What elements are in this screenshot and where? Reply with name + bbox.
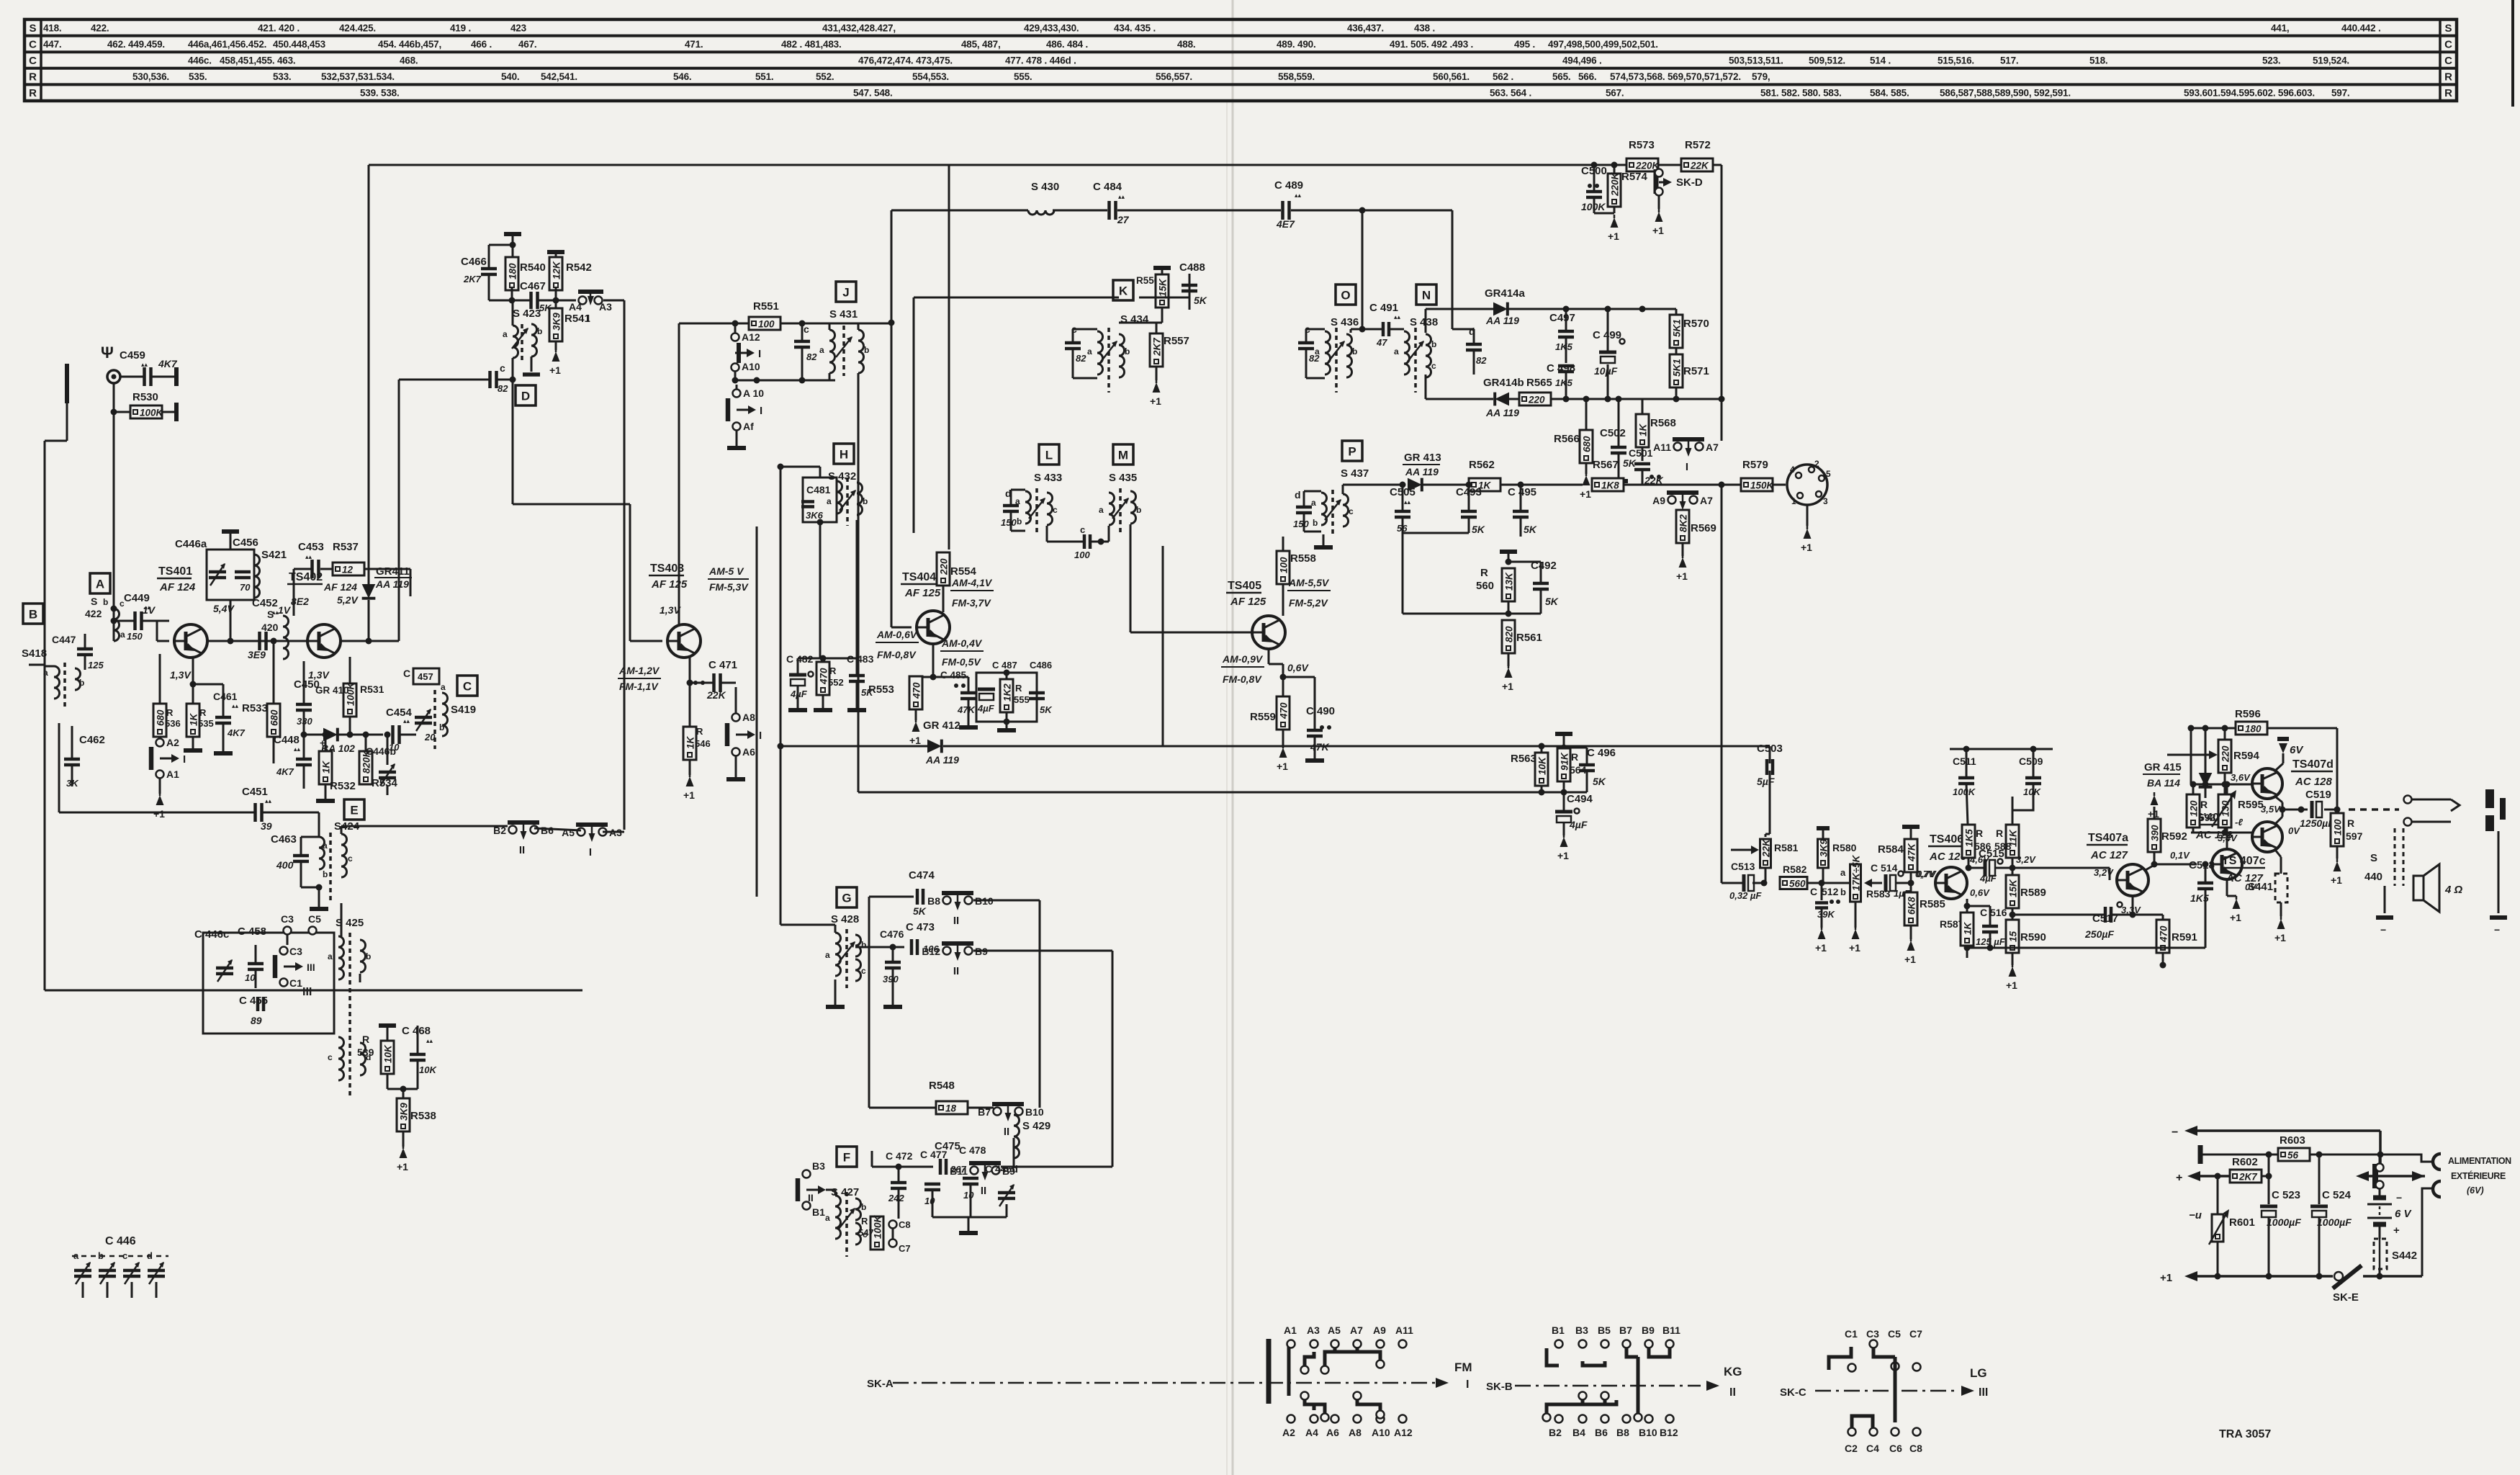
svg-text:FM-0,8V: FM-0,8V [877,649,917,660]
svg-text:4K7: 4K7 [276,766,294,777]
svg-text:5K: 5K [1194,295,1207,306]
svg-text:531.534.: 531.534. [358,71,395,82]
wire GR412 line [780,745,927,748]
svg-text:a: a [827,496,832,506]
resistor R568 [1636,414,1649,447]
svg-text:470: 470 [2159,925,2169,943]
resistor R538 [397,1098,410,1131]
svg-text:AA 119: AA 119 [925,754,959,766]
svg-text:5K: 5K [1040,704,1053,715]
svg-text:TS 407c: TS 407c [2222,855,2266,867]
svg-text:a: a [1311,498,1316,508]
svg-text:431,432,428.427,: 431,432,428.427, [822,22,896,33]
svg-text:A5: A5 [1328,1324,1341,1336]
svg-text:1V: 1V [143,604,156,616]
wire minus drop [2379,1131,2382,1163]
svg-text:2: 2 [1814,459,1819,469]
svg-text:457: 457 [418,671,433,682]
svg-text:B: B [29,608,37,622]
svg-text:S: S [267,609,274,620]
svg-text:L: L [1045,449,1053,462]
svg-text:441,: 441, [2271,22,2289,33]
resistor R546 [683,727,696,760]
svg-text:R595: R595 [2238,799,2264,811]
svg-text:c: c [861,966,866,976]
svg-text:A1: A1 [1284,1324,1297,1336]
svg-text:c: c [1080,524,1085,535]
svg-text:5K: 5K [1472,524,1485,535]
svg-text:R532: R532 [330,780,356,792]
box O [1336,284,1356,305]
resistor R569 [1676,510,1689,543]
svg-text:C 446: C 446 [105,1235,136,1247]
wire TS407b collector [2226,784,2228,849]
wire TS406 collector [1964,868,1968,871]
resistor R558 [1277,551,1290,584]
svg-text:A2: A2 [166,737,179,748]
svg-text:4E7: 4E7 [1276,218,1295,230]
wire base row TS407d [2191,784,2252,786]
svg-text:▴▴: ▴▴ [1404,498,1411,506]
svg-text:b: b [1125,346,1130,357]
transformer S435 [1109,493,1115,525]
svg-text:R: R [2444,71,2452,84]
svg-text:1K2: 1K2 [1002,683,1013,701]
svg-text:R530: R530 [132,391,158,403]
svg-text:A11: A11 [1395,1324,1413,1336]
resistor R561 [1502,620,1515,653]
svg-text:▴▴: ▴▴ [305,553,312,560]
svg-text:C 523: C 523 [2272,1189,2300,1201]
svg-text:390: 390 [883,974,899,985]
svg-text:3,5V: 3,5V [2261,804,2281,815]
wire alim lower lead [2422,1188,2433,1276]
svg-text:B7: B7 [1619,1324,1632,1336]
svg-text:R572: R572 [1685,139,1711,151]
supply bar S421 [222,529,239,534]
svg-text:546.: 546. [673,71,691,82]
svg-text:C461: C461 [213,691,238,702]
wire L row link [914,532,1011,534]
svg-text:B5: B5 [1598,1324,1611,1336]
svg-text:422: 422 [85,608,102,619]
plus rail arrow [2191,1175,2231,1178]
wire minus rail [2195,1129,2380,1132]
svg-text:R: R [2444,87,2452,99]
svg-text:10K: 10K [1537,756,1548,775]
svg-text:C: C [29,55,37,67]
svg-text:3K9: 3K9 [552,313,562,331]
DIN connector [1787,465,1827,505]
svg-text:3,6V: 3,6V [2231,772,2251,783]
svg-text:560,561.: 560,561. [1433,71,1470,82]
svg-text:S: S [2370,852,2377,864]
svg-text:C511: C511 [1953,756,1976,767]
svg-text:A4: A4 [1305,1427,1318,1438]
svg-text:A8: A8 [1349,1427,1362,1438]
svg-text:S: S [2444,22,2452,35]
svg-text:b: b [1313,518,1318,528]
svg-text:LG: LG [1970,1366,1987,1380]
svg-text:467.: 467. [518,39,536,50]
svg-text:588: 588 [1994,840,2012,852]
svg-text:424.425.: 424.425. [339,22,376,33]
contact C3 C5 [284,927,292,935]
svg-text:R562: R562 [1469,459,1495,471]
svg-text:K: K [1119,284,1128,298]
svg-text:565.: 565. [1552,71,1570,82]
svg-text:R: R [1571,751,1578,763]
svg-text:III: III [302,986,312,998]
svg-text:A3: A3 [1307,1324,1320,1336]
alim switch [2372,1164,2378,1188]
arrow into R581 [1731,849,1751,851]
svg-text:R533: R533 [242,702,268,714]
svg-text:509,512.: 509,512. [1809,55,1845,66]
SK-A dashdot line [893,1382,1436,1384]
svg-text:680: 680 [269,709,280,726]
svg-text:R531: R531 [360,683,384,695]
svg-text:A9: A9 [1652,495,1665,506]
svg-text:1K: 1K [321,760,332,774]
transformer S436 [1325,331,1331,375]
resistor R588 [2006,825,2019,858]
wire R596 left drop [2190,728,2192,784]
svg-text:+1: +1 [397,1161,408,1173]
svg-text:C497: C497 [1549,312,1575,324]
wire D riser [398,380,400,641]
svg-text:C 477: C 477 [920,1149,948,1160]
svg-text:10: 10 [924,1196,935,1206]
svg-text:220K: 220K [1610,171,1621,197]
ground S428 [834,979,837,1000]
svg-text:1V: 1V [278,604,292,616]
terminal R584 [1902,825,1920,829]
svg-text:TS405: TS405 [1228,580,1261,592]
svg-text:−: − [2396,1192,2402,1203]
svg-text:220: 220 [2220,745,2231,763]
svg-text:ALIMENTATION: ALIMENTATION [2448,1156,2511,1166]
transformer S433 [1025,491,1031,524]
wire S437 top [1342,485,1344,494]
svg-text:400: 400 [276,859,294,871]
wire R560 mid [1508,601,1510,614]
svg-text:27: 27 [1117,214,1130,225]
svg-text:560: 560 [1789,879,1806,889]
svg-text:1250µF: 1250µF [2300,817,2334,829]
svg-text:539: 539 [357,1046,374,1058]
svg-text:C 473: C 473 [906,921,935,933]
svg-text:R602: R602 [2232,1156,2258,1168]
svg-text:C: C [1810,886,1817,897]
svg-text:GR414b: GR414b [1483,377,1524,389]
svg-text:C 478: C 478 [959,1144,986,1156]
feedback arrow R594 [2167,754,2209,756]
svg-text:10K: 10K [419,1064,437,1075]
wire TS403 collector [678,323,680,625]
svg-text:2K7: 2K7 [2238,1172,2258,1183]
resistor R564 [1557,748,1570,781]
resistor R554 [937,552,950,586]
svg-text:B11: B11 [950,1165,968,1177]
transformer S427 [835,1196,841,1239]
resistor R540 [505,257,518,290]
svg-text:514 .: 514 . [1870,55,1891,66]
svg-text:O: O [1341,289,1350,302]
svg-text:536: 536 [165,718,181,729]
svg-text:+: + [2393,1224,2400,1237]
svg-text:390: 390 [2150,825,2161,841]
svg-text:AF 125: AF 125 [651,578,688,591]
svg-text:III: III [307,961,315,973]
wire M out [1130,524,1132,551]
svg-text:d: d [1295,489,1301,501]
SK-C top traces [1829,1347,1851,1370]
svg-text:434. 435 .: 434. 435 . [1114,22,1156,33]
svg-text:22K: 22K [1761,838,1772,858]
wire base bus TS407a [2012,867,2110,869]
svg-text:SK-B: SK-B [1486,1381,1513,1393]
svg-text:5µF: 5µF [1757,776,1775,787]
svg-text:546: 546 [695,738,711,749]
svg-text:AA 119: AA 119 [1485,407,1519,418]
svg-text:R582: R582 [1783,864,1807,875]
svg-text:47K: 47K [1310,741,1330,753]
capacitor C473 row [855,946,904,949]
svg-text:R559: R559 [1250,711,1276,723]
svg-text:A1: A1 [166,768,179,780]
svg-text:C 495: C 495 [1508,486,1536,498]
svg-text:R568: R568 [1650,417,1676,429]
svg-text:a: a [441,682,446,692]
wire A11A7 stub [1688,456,1689,457]
svg-text:b: b [1840,887,1846,897]
svg-text:5K: 5K [1593,776,1606,787]
svg-text:429,433,430.: 429,433,430. [1024,22,1079,33]
svg-text:+1: +1 [909,735,921,746]
svg-text:AA 119: AA 119 [1485,315,1519,326]
svg-text:3,4V: 3,4V [2218,833,2238,843]
svg-text:447.: 447. [43,39,61,50]
resistor R535 [186,704,199,737]
wire K cluster [1119,322,1162,324]
svg-text:B12: B12 [922,946,940,957]
svg-text:10µF: 10µF [1594,365,1618,377]
svg-text:100: 100 [758,319,775,330]
svg-text:5K1: 5K1 [1672,319,1683,337]
svg-text:a: a [1015,496,1020,506]
svg-text:466 .: 466 . [471,39,492,50]
svg-text:AM-1,2V: AM-1,2V [618,665,660,676]
tuned circuit C446a C456 S421 [207,550,254,600]
svg-text:150: 150 [1293,519,1309,529]
svg-text:R: R [362,1034,369,1045]
svg-text:B2: B2 [1549,1427,1562,1438]
wire B verticals [44,642,46,990]
svg-text:III: III [1979,1386,1988,1399]
svg-text:B2: B2 [493,825,506,836]
svg-text:B1: B1 [812,1206,825,1218]
svg-text:100K: 100K [140,408,164,418]
svg-text:Ψ: Ψ [101,344,114,362]
svg-text:0,32 µF: 0,32 µF [1729,890,1762,901]
transformer S431 [829,323,831,330]
svg-text:552.: 552. [816,71,834,82]
svg-text:1000µF: 1000µF [2267,1216,2301,1228]
svg-text:R580: R580 [1832,842,1857,853]
svg-text:GR 410: GR 410 [315,685,349,696]
svg-text:422.: 422. [91,22,109,33]
svg-text:a: a [825,1213,830,1223]
terminal R564 [1555,732,1572,736]
svg-text:R: R [199,707,207,718]
svg-text:2K7: 2K7 [1152,337,1163,357]
svg-text:C509: C509 [2019,756,2043,767]
svg-text:330: 330 [297,716,312,727]
contact B2 B6 [509,826,517,834]
svg-text:S: S [29,22,36,35]
svg-text:R574: R574 [1621,171,1648,183]
svg-text:FM: FM [1454,1360,1472,1374]
svg-text:0,6V: 0,6V [1287,662,1309,673]
svg-text:8K2: 8K2 [1678,514,1689,532]
transformer S425 lower [338,1037,344,1080]
contact A10 Af [733,390,741,398]
svg-text:C 514: C 514 [1871,862,1898,874]
svg-text:C513: C513 [1731,861,1755,872]
svg-text:574,573,568. 569,570,571,572.: 574,573,568. 569,570,571,572. [1610,71,1741,82]
box E [344,799,364,820]
svg-text:a: a [1087,346,1092,357]
svg-text:c: c [348,853,353,864]
svg-text:5K: 5K [1623,457,1637,469]
svg-text:6 V: 6 V [2395,1208,2413,1220]
svg-text:C 490: C 490 [1306,705,1335,717]
resistor R590 [2006,920,2019,953]
svg-text:482 . 481,483.: 482 . 481,483. [781,39,842,50]
svg-text:10: 10 [245,972,256,983]
wire A3 drop [603,300,624,302]
svg-text:+1: +1 [2274,932,2286,943]
contact B8 B10 [943,897,951,905]
svg-text:C 491: C 491 [1369,302,1398,314]
contact B3 B1 [803,1170,811,1178]
svg-text:A3: A3 [599,301,612,313]
svg-text:125: 125 [88,660,104,671]
svg-text:B10: B10 [1639,1427,1657,1438]
svg-text:563. 564 .: 563. 564 . [1490,88,1531,99]
svg-text:462. 449.459.: 462. 449.459. [107,39,165,50]
svg-text:R: R [829,665,837,676]
SK-A bottom traces [1305,1400,1325,1413]
svg-text:TS407d: TS407d [2292,758,2334,771]
wire G feed [756,526,758,897]
svg-text:15K: 15K [1158,278,1169,297]
svg-text:TS404: TS404 [902,571,936,583]
svg-text:II: II [1729,1386,1736,1399]
svg-text:100K: 100K [1953,786,1976,797]
svg-text:R591: R591 [2172,931,2197,943]
capacitor C446b gang section [99,1269,116,1273]
alim terminals [2433,1154,2441,1170]
wire J vertical [891,210,893,323]
transformer S424 [318,812,320,837]
svg-text:+1: +1 [549,364,561,376]
svg-text:b: b [366,951,371,961]
svg-text:a: a [503,329,508,339]
wire S431 b drop long [858,373,860,792]
svg-text:R581: R581 [1774,842,1799,853]
wire S432 b down [856,520,858,658]
svg-text:130: 130 [2220,800,2231,817]
svg-text:C518: C518 [2189,859,2215,871]
wire drop from R572 [1721,165,1723,441]
svg-text:10K: 10K [383,1044,394,1063]
wire S431 bottom row [735,380,835,382]
svg-text:420: 420 [261,622,279,633]
svg-text:17K÷5K: 17K÷5K [1851,854,1862,891]
resistor R557 [1150,333,1163,367]
wire S425 [359,974,361,982]
svg-text:120: 120 [2189,800,2200,817]
svg-text:220: 220 [939,558,950,575]
tank C481 [803,478,837,522]
svg-text:R596: R596 [2235,708,2261,720]
box F [837,1147,857,1167]
svg-text:b: b [1136,505,1141,515]
svg-text:C3: C3 [281,913,294,925]
wire S431 b riser [858,323,860,330]
svg-text:FM-0,8V: FM-0,8V [1223,673,1262,685]
svg-text:C448: C448 [274,734,300,746]
svg-text:2K7: 2K7 [463,274,482,284]
box G [837,887,857,907]
svg-text:A6: A6 [1326,1427,1339,1438]
svg-text:C8: C8 [1909,1443,1922,1454]
svg-text:532,537,: 532,537, [321,71,358,82]
SK-C bottom contacts [1848,1428,1856,1436]
svg-text:C 484: C 484 [1093,181,1122,193]
svg-text:S: S [91,596,97,607]
capacitor C446a gang section [74,1269,91,1273]
ground R535 C461 [192,742,194,750]
svg-text:R538: R538 [410,1110,436,1122]
svg-text:+1: +1 [1557,850,1569,861]
svg-text:AM-0,9V: AM-0,9V [1222,653,1264,665]
wire N to GR414a [1425,309,1427,333]
svg-text:18: 18 [945,1103,957,1114]
box J [836,282,856,302]
svg-text:+1: +1 [1652,225,1664,236]
box D [516,385,536,405]
wire R592 to TS407b base [2154,864,2197,866]
svg-text:▴▴: ▴▴ [141,361,148,368]
svg-text:▴▴: ▴▴ [265,797,272,804]
svg-text:5,4V: 5,4V [213,603,235,614]
resistor R589 [2006,875,2019,908]
svg-text:4µF: 4µF [1569,819,1588,830]
svg-text:AM-4,1V: AM-4,1V [951,577,993,588]
wire G top row C474 [757,896,914,897]
contact B7 B10 [994,1108,1002,1116]
svg-text:242: 242 [888,1193,904,1203]
svg-text:a: a [825,950,830,960]
svg-text:II: II [981,1185,986,1197]
svg-text:FM-3,7V: FM-3,7V [952,597,991,609]
svg-text:+1: +1 [1815,942,1827,954]
svg-text:458,451,455. 463.: 458,451,455. 463. [220,55,295,66]
svg-text:B9: B9 [1642,1324,1655,1336]
